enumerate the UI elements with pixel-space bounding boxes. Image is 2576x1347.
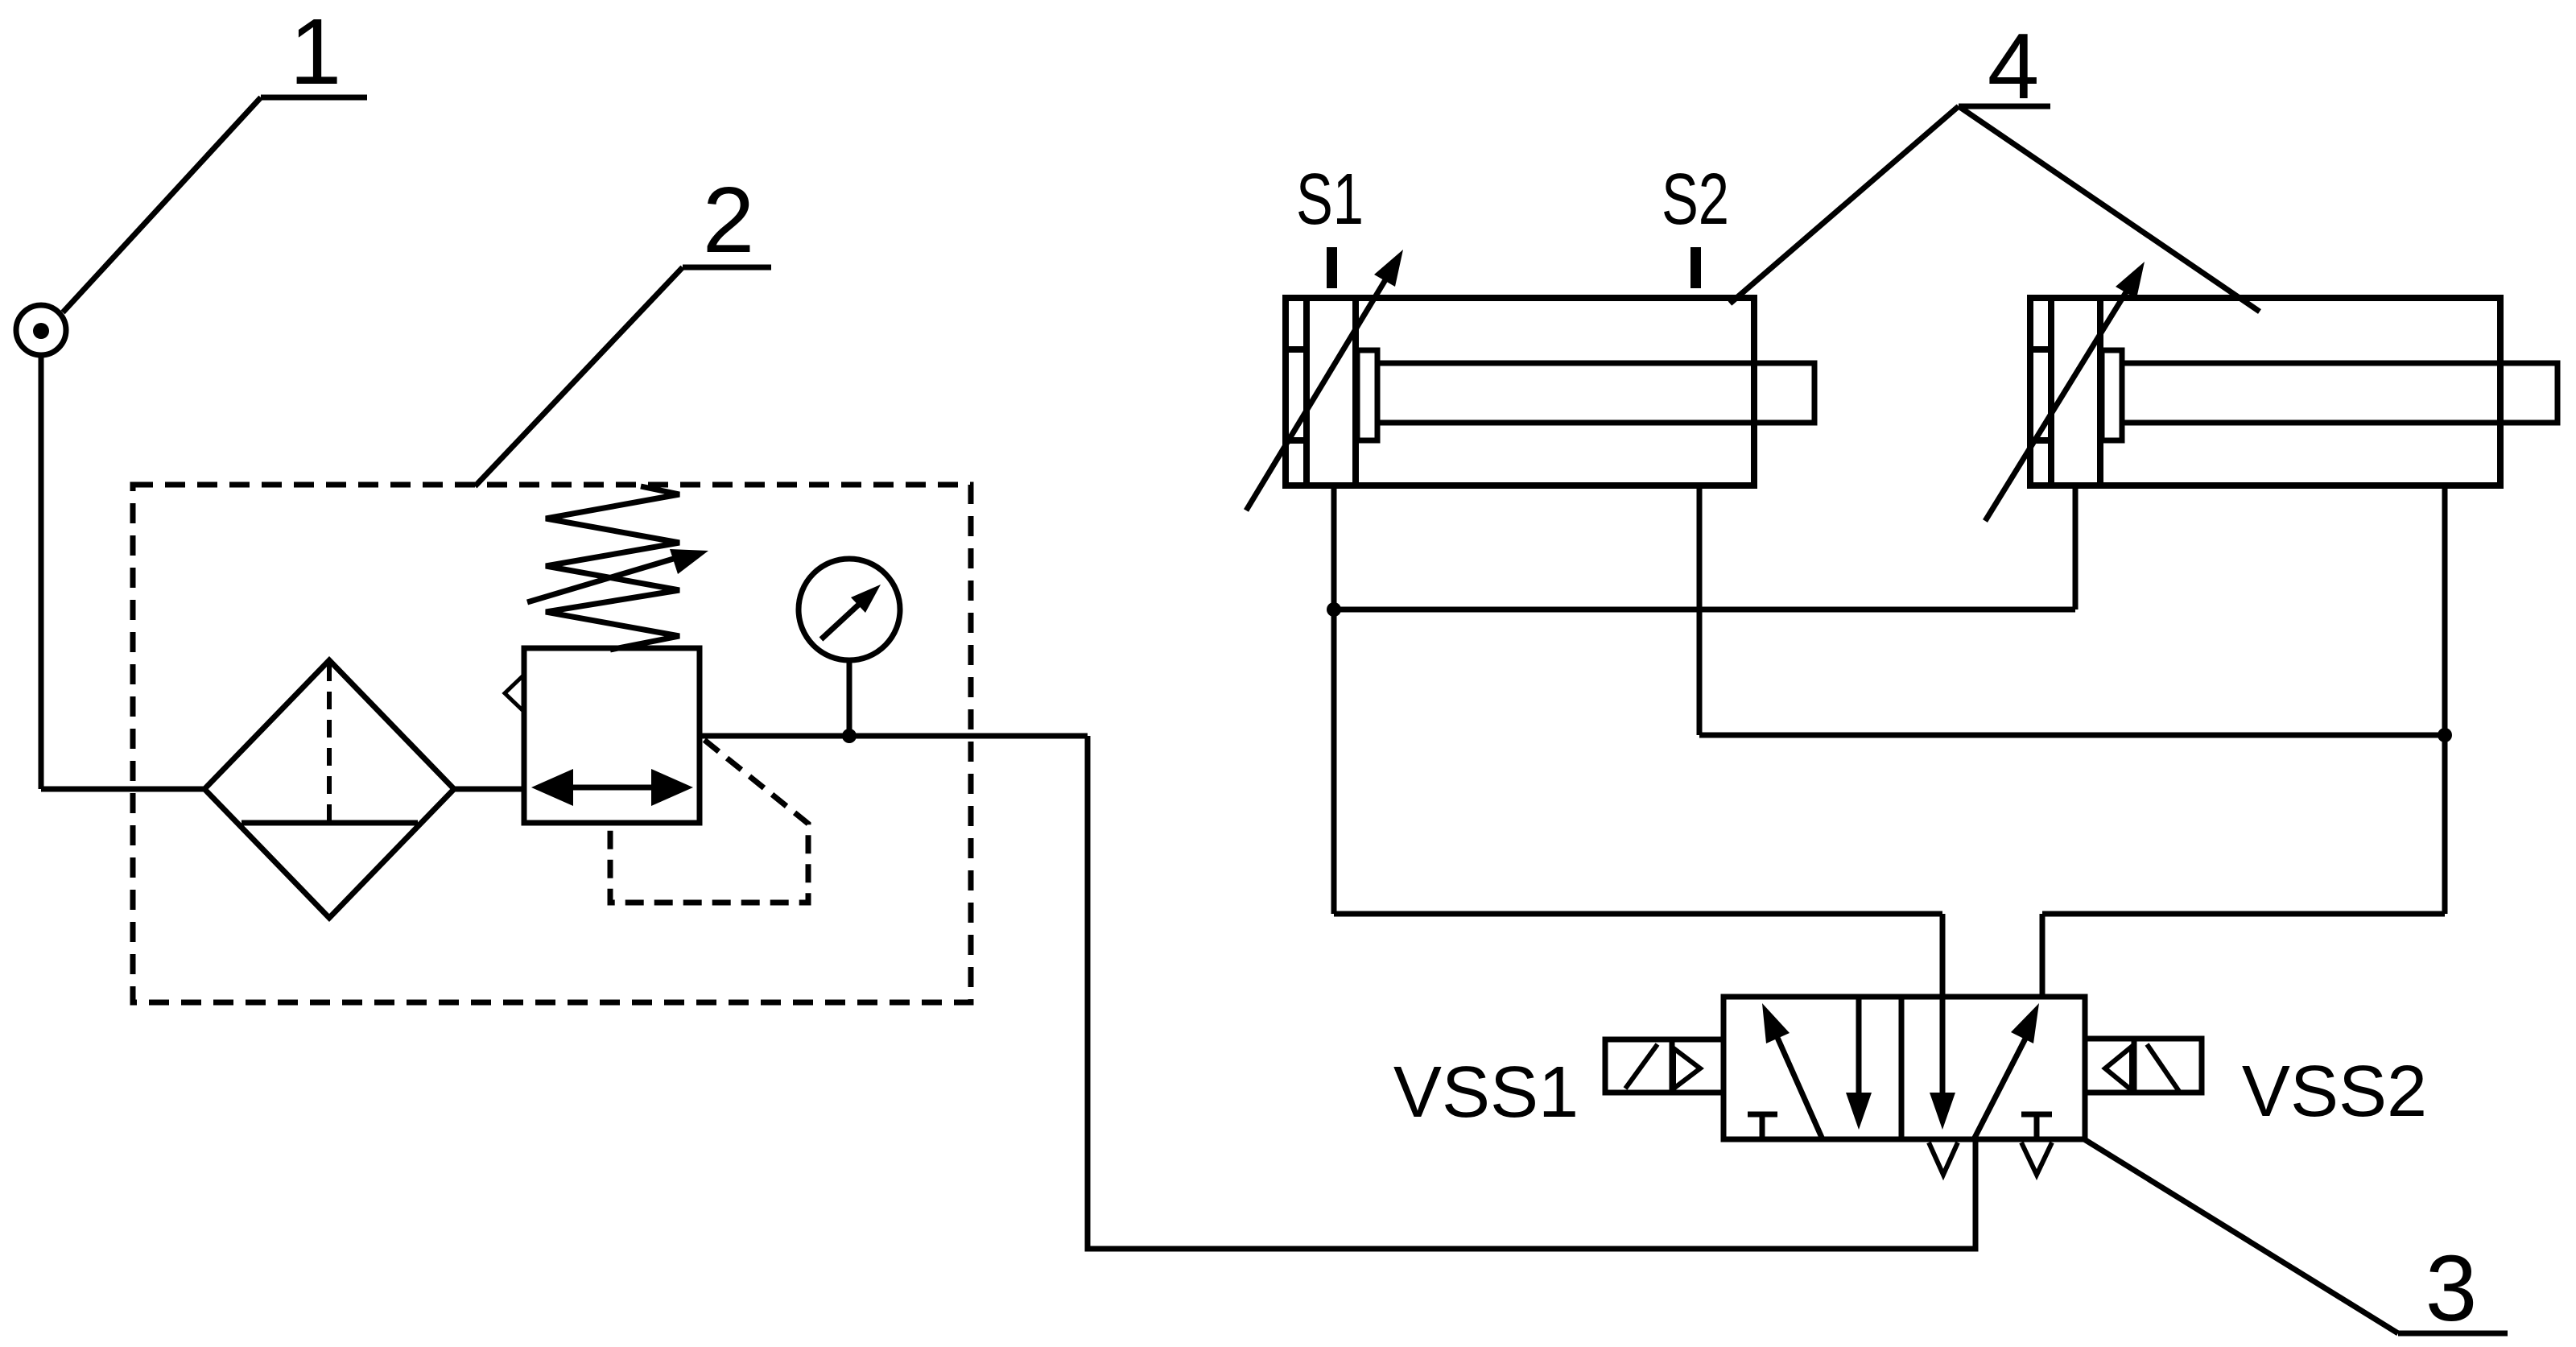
svg-text:S1: S1 bbox=[1296, 159, 1364, 240]
svg-text:3: 3 bbox=[2425, 1236, 2478, 1341]
svg-text:4: 4 bbox=[1988, 14, 2040, 118]
svg-text:1: 1 bbox=[290, 0, 342, 104]
svg-text:S2: S2 bbox=[1662, 159, 1729, 240]
svg-text:VSS2: VSS2 bbox=[2242, 1052, 2427, 1132]
svg-text:VSS1: VSS1 bbox=[1393, 1052, 1579, 1133]
svg-text:2: 2 bbox=[703, 167, 755, 272]
